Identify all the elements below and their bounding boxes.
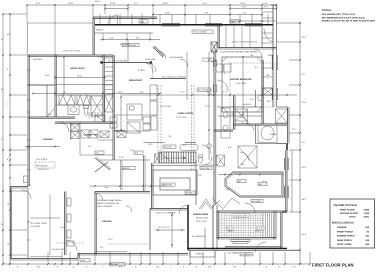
mud tag2 [134,151,143,154]
square footage table [330,199,375,248]
breakfast arcs [143,63,153,73]
svg-text:(2) 1.75x14 LVL CLNG BM: (2) 1.75x14 LVL CLNG BM [162,76,186,79]
nook tray rect inner [160,178,190,190]
left dimension line inner [9,14,11,264]
right dimension line [299,23,301,264]
svg-text:SCREEN PORCH: SCREEN PORCH [337,235,355,238]
svg-text:W/ CLG ABOVE: W/ CLG ABOVE [202,60,217,63]
laundry bottom wall [80,154,113,156]
pantry shelves ladder [105,57,113,59]
right extension stubs [277,41,301,43]
svg-text:- STAIRS: 18 R S (TYP.), 1ST: - STAIRS: 18 R S (TYP.), 1ST FLOOR TO 2N… [321,20,376,23]
svg-text:BENCH: BENCH [123,167,131,170]
left dim ticks mid [9,149,11,151]
interior dim line lower [155,229,185,231]
interior dim vertical breakfast [127,40,129,62]
mbath wall x233 [233,95,235,130]
porch steps [231,240,250,242]
master right rooms walls [261,25,263,48]
column tag left [227,227,235,230]
porch top wall [217,210,287,212]
laundry appliances [71,124,79,131]
dining left thick wall [187,205,189,250]
mbath north wall [233,123,287,125]
right wing east wall [272,5,274,107]
garage door diag [47,109,54,117]
wc arcs lower [240,152,249,161]
tub wall [255,124,257,144]
guest closet bifold left [59,95,75,105]
window tag top left [139,20,148,23]
guest bath bottom wall [28,116,75,118]
garage corner door box [24,176,29,183]
svg-text:GARAGE: GARAGE [337,226,347,229]
garage header dashed [108,243,148,245]
nook tray rect outer [153,170,197,195]
pantry cabinet X [105,95,113,112]
interior dim line mid [100,159,150,161]
garage dim line2 [25,146,60,148]
family room right beam dashed [191,85,193,170]
svg-text:PATIO / STOR.: PATIO / STOR. [337,243,352,246]
laundry partial wall [98,139,113,141]
dining bay triangles [199,199,213,209]
foyer left wall [151,163,153,209]
svg-text:WIC: WIC [238,180,242,183]
foyer label [185,191,195,194]
third garage vert dim [171,212,173,248]
svg-text:TOTAL: TOTAL [349,215,357,218]
left room divider [28,84,55,86]
kitchen lower cabinets [127,122,140,133]
master closet cells [225,26,227,47]
his closet shelves [262,32,273,34]
wing interior shelves [262,11,273,13]
svg-text:9'-0 PLT: 9'-0 PLT [242,122,250,125]
right wing door arc [264,29,273,43]
svg-text:PWD RM: PWD RM [201,167,210,170]
guest bath shower [91,96,103,116]
garage divider framing marks [67,198,71,206]
svg-text:4'-10: 4'-10 [110,2,116,5]
master bath top wall [214,129,233,131]
svg-text:36'-8: 36'-8 [95,0,101,3]
garage bottom step [77,254,79,259]
svg-text:FIRST FLOOR PLAN: FIRST FLOOR PLAN [312,263,354,268]
column tag right [257,227,265,230]
svg-text:LAUNDRY RM: LAUNDRY RM [83,134,98,137]
svg-text:FLUSH BEAM: FLUSH BEAM [170,56,183,59]
kitchen counter [113,114,150,116]
vertical ext line x187 [186,52,188,100]
interior dim line y40 [100,39,160,41]
svg-text:DINING ROOM: DINING ROOM [193,213,208,216]
porch column stubs [102,33,104,40]
guest suite right wall [102,55,104,122]
svg-text:4-0 WAINSCOT: 4-0 WAINSCOT [192,235,207,238]
hall wall x214 [213,50,215,205]
svg-text:2x6 WALL: 2x6 WALL [33,58,43,61]
master closet big X [238,146,257,168]
left exterior wall [27,55,29,187]
hall door arc to master [217,80,228,91]
master wc closet X [263,88,273,95]
left top connector [27,23,29,55]
timber tag [251,200,263,203]
garage door tags [80,259,90,262]
upper dim row mid [153,14,262,16]
powder door arcs [202,145,211,154]
nook label box [162,183,175,186]
mud door arc [95,193,103,201]
bottom extension stubs [47,252,49,264]
guest closet bifold right [77,95,90,105]
svg-text:4,801: 4,801 [364,215,370,218]
garage attic box [67,241,74,246]
mbath shower right [276,109,288,123]
garage bottom wall right [78,253,188,255]
svg-text:7-8 X 1-2 NOM: 7-8 X 1-2 NOM [193,31,207,34]
breakfast top beam [100,62,152,64]
master tray corner cuts [222,57,227,62]
stairs bottom wall [152,165,196,167]
wc toilet [258,95,262,101]
right inner dim line [291,150,293,212]
svg-text:NOTES:: NOTES: [322,9,332,12]
right lower window symbols [283,158,285,170]
svg-text:20'-4 X 30'-8: 20'-4 X 30'-8 [36,158,48,161]
lanai label box [233,214,249,217]
rear door arc [255,242,266,253]
top right dim connector [277,22,301,24]
wic dim line [218,174,283,176]
kitchen island [127,104,142,120]
chimney chase hatched [211,42,217,52]
svg-text:LIN: LIN [266,74,270,77]
svg-text:18'-2: 18'-2 [163,2,169,5]
powder toilet [199,155,203,157]
svg-text:4-0 TMBR: 4-0 TMBR [252,200,262,203]
guest suite closet wall [55,94,103,96]
garage rear door arc [66,240,77,251]
svg-text:LANAI/COURT: LANAI/COURT [234,214,248,217]
garage inner door arc [22,190,31,199]
svg-text:W.C.: W.C. [267,100,272,103]
svg-text:FAMILY ROOM: FAMILY ROOM [178,112,193,115]
guest wing front porch wall [93,16,157,18]
svg-text:17-8 X 19-6: 17-8 X 19-6 [176,116,187,119]
svg-text:W.I.C.: W.I.C. [226,188,232,191]
interior dim line y186 [90,185,165,187]
linen X [217,155,225,166]
porch bottom wall [217,237,276,239]
right wing top cap [271,4,277,6]
window tag top right [230,20,239,23]
dining right wall [212,205,214,250]
kitchen flush beam [150,78,186,80]
laundry door arc [59,122,69,132]
garage bay divider wall [64,192,66,256]
bottom dimension line [3,263,310,265]
svg-text:MISCELLANEOUS: MISCELLANEOUS [332,222,354,225]
hall vert dim [208,52,210,160]
svg-text:- 10-0 CEILING HGT. (TYP.) U.: - 10-0 CEILING HGT. (TYP.) U.N.O. [321,13,356,16]
top wall window symbols [162,22,180,24]
svg-text:MASTER BEDROOM: MASTER BEDROOM [230,78,251,81]
svg-text:SECOND FLOOR: SECOND FLOOR [340,212,358,215]
svg-text:9-0x8-0 OHD: 9-0x8-0 OHD [52,248,64,251]
garage bay divider vertical [27,188,29,259]
angled wall porch-kitchen [153,47,163,57]
mbath door arcs [240,117,248,125]
svg-text:OPTIONAL HOBBY ROOM: OPTIONAL HOBBY ROOM [97,199,122,202]
guest dim line [55,77,105,79]
stairs left block [155,154,160,163]
left wall window ticks [27,69,31,71]
right wall window symbols [271,55,273,70]
svg-text:ABOVE PLAN WALL ON: ABOVE PLAN WALL ON [97,202,120,205]
garage top wall [95,191,150,193]
left dimension line outer [2,14,4,264]
pantry boxes [95,115,105,122]
lanai grid texture [220,214,264,238]
svg-text:2-2x12 DISTINCTION BM CLNG TRT: 2-2x12 DISTINCTION BM CLNG TRTMNT [220,51,259,54]
svg-text:8-0 X 11-0 CLNG BM: 8-0 X 11-0 CLNG BM [108,60,127,63]
master entry wall [217,25,219,48]
svg-text:UP 18 R: UP 18 R [164,146,172,149]
master top door arc [254,49,262,57]
svg-text:1-8 1/2 TYP 1-2 B.O.: 1-8 1/2 TYP 1-2 B.O. [62,50,81,53]
porch left wall [216,211,218,239]
svg-text:WIC: WIC [259,183,263,186]
laundry top wall [55,121,113,123]
svg-text:12-0 CLNG: 12-0 CLNG [236,82,247,85]
mud walls vertical [120,160,122,190]
garage dim leader [30,217,60,219]
top extension lines [26,6,28,24]
svg-text:BREAKFAST: BREAKFAST [129,79,143,82]
svg-text:4-0 CONC CURB: 4-0 CONC CURB [31,222,47,225]
garage left lower wall [9,187,11,259]
kitchen vert dim [120,97,122,130]
garage center line [49,195,51,255]
svg-text:5-0 (4) 1-0 TRSM AT 8-0 HD: 5-0 (4) 1-0 TRSM AT 8-0 HD [232,40,258,43]
svg-text:FOYER: FOYER [186,192,193,195]
guest bath toilet [84,106,89,109]
dining top wall [150,208,188,210]
stairs label tag [163,145,176,148]
closet bottom door arc [245,203,255,213]
svg-text:GUEST SUITE: GUEST SUITE [70,67,85,70]
svg-text:FRONT PORCH: FRONT PORCH [337,230,353,233]
kitchen appliances [143,117,151,123]
kitchen left vert dashed [152,63,154,78]
master south line [218,115,262,117]
svg-text:14'-8: 14'-8 [68,2,74,5]
rear timber tag [240,253,253,256]
porch right wall [282,211,287,213]
bath bump east wall [287,107,289,144]
window tag guest porch [122,44,139,47]
svg-text:- SET WINDOWS HD 8-0 A.F.F. (: - SET WINDOWS HD 8-0 A.F.F. (TYP.) S.B.O… [321,16,366,19]
study bay angled walls [222,198,240,210]
svg-text:(4) 16x8: (4) 16x8 [111,263,119,266]
garage entry steps [88,112,90,118]
mbath hall wall [217,106,262,108]
interior dim line family [120,94,297,96]
svg-text:REAR PORCH: REAR PORCH [337,239,352,242]
family south wall [144,142,166,144]
svg-text:4-0 TIMBER: 4-0 TIMBER [241,253,253,256]
garage door panels [30,256,62,258]
svg-text:GARAGE: GARAGE [43,138,53,141]
svg-text:W.C.: W.C. [241,163,246,166]
svg-text:M. BATH: M. BATH [243,103,252,106]
garage lower top wall [10,186,28,188]
wc wall [255,90,257,107]
powder walls [195,160,197,205]
front porch steps [189,250,191,257]
svg-text:4'-1 OPEN: 4'-1 OPEN [120,43,130,46]
svg-text:PORCH: PORCH [196,253,204,256]
front door arc guest entry [108,15,118,25]
svg-text:FIRST FLOOR: FIRST FLOOR [340,208,355,211]
guest suite left wall [54,55,56,117]
svg-text:1,156: 1,156 [364,212,370,215]
hall window syms [213,60,216,66]
angled doors left of closet [212,198,222,208]
interior dim line kitchen [33,93,160,95]
interior dim vertical dining [204,228,206,248]
stairs [159,152,196,163]
third garage left wall [149,209,151,251]
top window extension ticks [99,14,101,24]
interior dim vertical master [242,57,244,115]
svg-text:OPT BENCH: OPT BENCH [36,165,48,168]
pantry hall wall [112,55,114,160]
dining door arc [179,205,188,214]
svg-text:4 TRAY: 4 TRAY [138,69,145,72]
garage bottom wall left [10,258,78,260]
mud hall angled walls [95,158,110,170]
right lower window symbols [283,158,285,170]
master bedroom tray ceiling [222,57,262,112]
svg-text:12-0 X 13-0: 12-0 X 13-0 [196,220,207,223]
angled door arc [158,51,166,59]
top dimension line [27,4,277,6]
garden tub platform [258,124,277,143]
stairs arrow [162,157,186,159]
mud bench tag [122,167,135,170]
chamfered closet room [225,172,283,197]
guest bath wall [55,104,103,106]
svg-text:(2) 1.75x14 LVL: (2) 1.75x14 LVL [198,89,213,92]
porch screen panel [262,213,264,237]
svg-text:PORCH: PORCH [96,29,104,32]
porch right wall [273,211,275,239]
svg-text:(2) 2-8 X 8-0 TIMBER: (2) 2-8 X 8-0 TIMBER [156,212,176,215]
svg-text:12'-2 X 21'-0: 12'-2 X 21'-0 [158,226,170,229]
svg-text:LNDRY: LNDRY [270,133,277,136]
svg-text:12'-8: 12'-8 [240,2,246,5]
svg-text:FLUSH BM: FLUSH BM [145,58,155,61]
laundry cabinets row [100,131,109,138]
right exterior wall master [286,144,288,151]
svg-text:HERS: HERS [268,54,274,57]
svg-text:4'-0 TIMBER: 4'-0 TIMBER [228,252,240,255]
svg-text:3,645: 3,645 [364,208,370,211]
mbath shower left [235,109,248,121]
guest vert dim [63,57,65,93]
breakfast arc [147,63,156,72]
left extension stubs [11,54,28,56]
porch inner wall [94,32,153,34]
svg-text:TWO STORAGE: TWO STORAGE [97,205,113,208]
upper dim row master [230,20,276,22]
upper floor outline top left [27,22,93,24]
svg-text:SQUARE FOOTAGE: SQUARE FOOTAGE [334,204,358,207]
main top exterior wall (thick) [95,24,273,26]
family room left beam dashed [157,85,159,160]
laundry wall column [70,122,72,140]
svg-text:CLNG 10'-0: CLNG 10'-0 [38,168,49,171]
garage divider wall [94,192,96,256]
garage bench dashed [35,162,55,168]
powder tag [200,167,212,170]
guest bath vanity [68,105,79,115]
svg-text:KITCHEN: KITCHEN [115,130,125,133]
svg-text:GARAGE: GARAGE [102,220,112,223]
mud tag1 [95,151,104,154]
left wing top wall [28,54,113,56]
svg-text:MOOD CLNG: MOOD CLNG [196,217,209,220]
svg-text:AT DOOR: AT DOOR [31,225,40,228]
rear bottom wall [188,248,287,250]
notes block [321,9,376,23]
kitchen wall cabinets [150,85,157,100]
svg-text:WINE RM: WINE RM [163,184,172,187]
powder sink [206,144,211,148]
svg-text:(OPTIONAL): (OPTIONAL) [202,57,214,60]
top secondary dimension line [230,8,277,10]
right wall lower step [286,150,288,212]
morning bar boxes [216,64,223,72]
lvl tag [197,88,211,91]
mbath vanity [221,108,230,138]
master nom tag [192,30,213,33]
svg-text:16'-0 X 19'-6: 16'-0 X 19'-6 [160,105,172,108]
wic tags [237,180,246,183]
